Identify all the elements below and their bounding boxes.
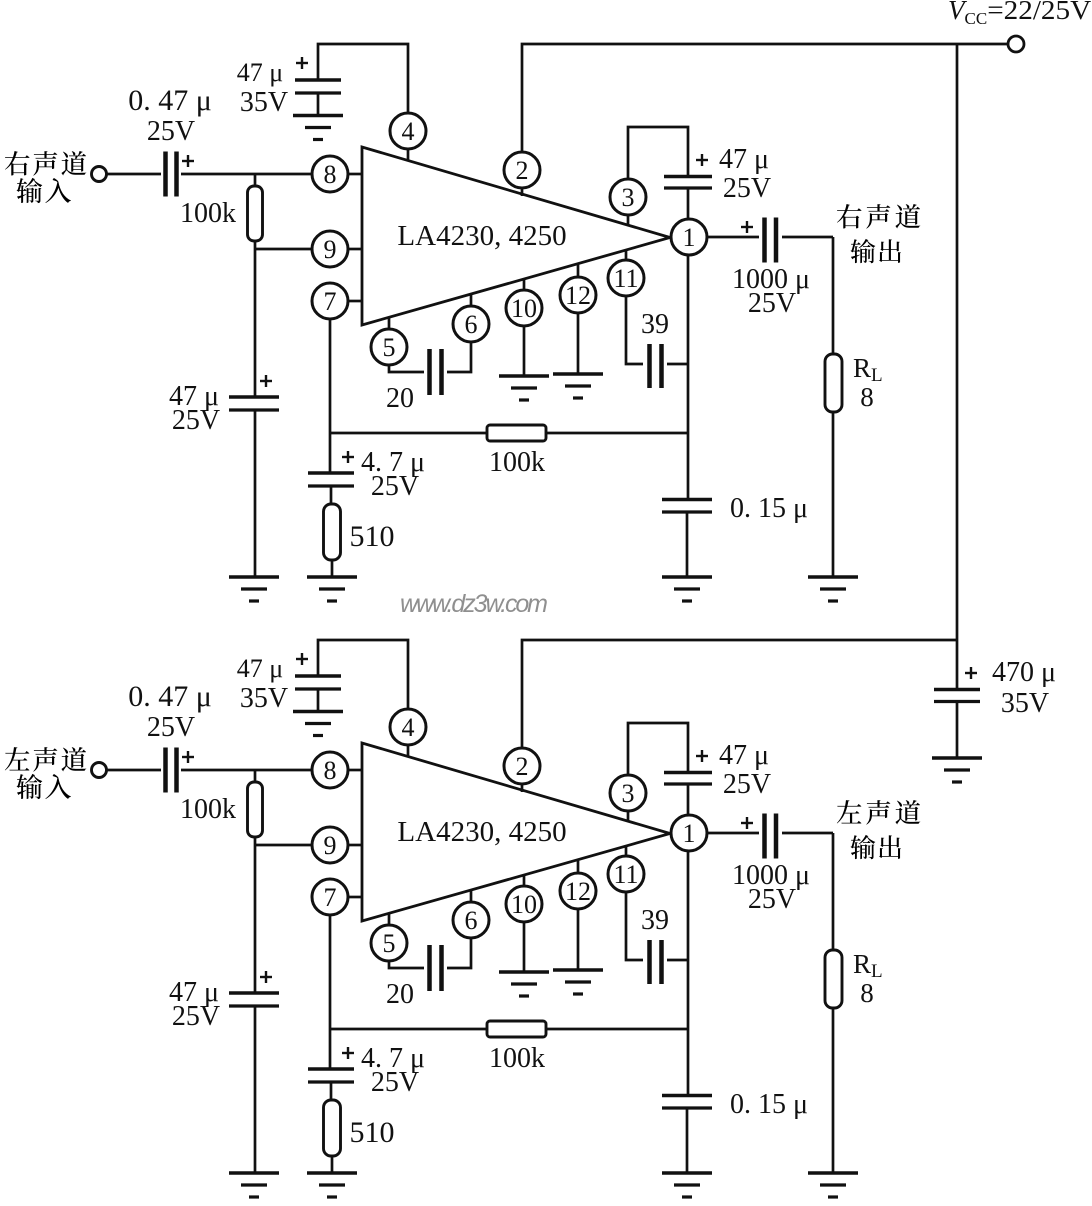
wire pin 1 to C 1000u: [707, 236, 759, 239]
pin 4 left: [390, 709, 426, 745]
wire pin 2 stub: [521, 784, 524, 792]
wire pin 6 stub: [470, 890, 473, 903]
svg-text:20: 20: [386, 383, 414, 414]
capacitor C 1000u 25V output left: [765, 814, 777, 859]
svg-text:6: 6: [465, 906, 478, 935]
wire C 4.7u to R 510: [330, 1082, 333, 1101]
wire pin 5 stub: [388, 913, 391, 926]
svg-text:8: 8: [324, 160, 337, 189]
capacitor C 4.7u 25V feedback left: [308, 1069, 354, 1082]
svg-text:12: 12: [565, 281, 591, 310]
svg-text:35V: 35V: [1001, 688, 1049, 719]
input terminal right channel: [92, 167, 107, 182]
ground below R 510: [307, 1173, 357, 1197]
capacitor C 4.7u 25V feedback right: [308, 473, 354, 486]
pin 11 right: [608, 260, 644, 296]
svg-text:7: 7: [324, 883, 337, 912]
svg-text:100k: 100k: [180, 198, 236, 229]
svg-text:10: 10: [511, 890, 537, 919]
wire pin 11 stub: [625, 250, 628, 261]
wire pin 2 to Vcc rail: [522, 44, 1008, 152]
capacitor C 47u 35V ripple filter right: [295, 80, 341, 93]
wire pin 12 to ground: [577, 313, 580, 375]
wire pin 1 down: [687, 851, 690, 1096]
wire output node down to RL: [832, 237, 835, 355]
wire RL to ground: [832, 412, 835, 578]
svg-text:1: 1: [683, 223, 696, 252]
wire RL to ground: [832, 1008, 835, 1174]
svg-text:LA4230, 4250: LA4230, 4250: [397, 220, 566, 252]
svg-text:25V: 25V: [172, 1001, 220, 1032]
resistor 100k feedback right: [487, 425, 546, 441]
svg-text:2: 2: [516, 752, 529, 781]
pin 12 ground left: [560, 873, 596, 909]
ground pin 10: [499, 972, 549, 996]
ground below C 0.15u: [662, 577, 712, 601]
wire C 39 to pin 1 line: [667, 959, 688, 962]
capacitor C 47u 35V ripple filter left: [295, 676, 341, 689]
svg-text:39: 39: [641, 309, 669, 340]
wire input to C 0.47u: [107, 769, 161, 772]
svg-text:12: 12: [565, 877, 591, 906]
capacitor C 470u 35V supply filter: [934, 690, 980, 702]
wire pin 7 down: [329, 319, 332, 473]
Vcc supply terminal: [1008, 36, 1024, 52]
svg-text:2: 2: [516, 156, 529, 185]
wire C 470u to ground: [956, 701, 959, 759]
svg-text:47 μ: 47 μ: [719, 144, 769, 175]
wire pin 10 stub: [523, 279, 526, 291]
wire pin 7 down: [329, 915, 332, 1069]
svg-text:25V: 25V: [371, 471, 419, 502]
wire pin 11 stub: [625, 846, 628, 857]
wire pin 3 to C 47u bootstrap: [628, 723, 688, 775]
wire C 0.15u to ground: [686, 1108, 689, 1174]
wire C 47u 35V to ground: [317, 93, 320, 116]
resistor 100k input bias left: [248, 782, 263, 837]
ground below C 470u: [932, 758, 982, 782]
capacitor C 1000u 25V output right: [765, 218, 777, 263]
svg-text:10: 10: [511, 294, 537, 323]
wire pin 3 to C 47u bootstrap: [628, 127, 688, 179]
capacitor C 47u 25V bootstrap left: [664, 773, 712, 785]
capacitor C 20 phase comp left: [430, 945, 442, 991]
svg-text:8: 8: [324, 756, 337, 785]
svg-text:470 μ: 470 μ: [992, 657, 1056, 688]
wire R 510 to ground: [331, 560, 334, 578]
svg-text:0. 15 μ: 0. 15 μ: [730, 1089, 808, 1120]
ground below R 510: [307, 577, 357, 601]
ground below C 47u 25V: [229, 577, 279, 601]
wire C 4.7u to R 510: [330, 486, 333, 505]
capacitor C 47u 25V bias decoupling right: [229, 397, 279, 410]
ground pin 10: [499, 376, 549, 400]
wire pin 3 stub: [627, 215, 630, 226]
capacitor C 0.15u zobel right: [662, 500, 712, 513]
ground below RL: [808, 1173, 858, 1197]
wire junction to R 100k top: [254, 770, 257, 783]
svg-text:25V: 25V: [748, 288, 796, 319]
op-amp U LA4230/4250 right channel triangle: [362, 147, 670, 325]
svg-text:11: 11: [613, 264, 638, 293]
wire output node down to RL: [832, 833, 835, 951]
wire pin 5 to C 20: [389, 365, 424, 372]
wire feedback net: [330, 1028, 688, 1031]
svg-text:20: 20: [386, 979, 414, 1010]
svg-text:510: 510: [350, 1116, 395, 1149]
pin 3 bootstrap left: [610, 775, 646, 811]
wire pin 4 to C 47u 35V: [318, 640, 408, 709]
pin 5 right: [371, 329, 407, 365]
svg-text:25V: 25V: [723, 173, 771, 204]
svg-text:3: 3: [622, 183, 635, 212]
wire pin 6 stub: [470, 294, 473, 307]
svg-text:0. 15 μ: 0. 15 μ: [730, 493, 808, 524]
wire C 1000u to output node: [782, 236, 833, 239]
pin 10 ground left: [506, 886, 542, 922]
wire C0.47u to pin 8: [181, 769, 312, 772]
wire pin 4 stub: [407, 745, 410, 757]
svg-text:35V: 35V: [240, 87, 288, 118]
resistor 510 feedback left: [324, 1100, 341, 1156]
wire Vcc rail vertical: [956, 44, 959, 690]
pin 7 feedback left: [312, 879, 348, 915]
wire pin 8 stub: [348, 173, 362, 176]
wire C 0.15u to ground: [686, 512, 689, 578]
ground below C 47u 35V: [293, 712, 343, 736]
ground pin 12: [553, 374, 603, 398]
wire pin 11 to C 39: [626, 296, 643, 364]
svg-text:510: 510: [350, 520, 395, 553]
ground below RL: [808, 577, 858, 601]
wire pin 9 stub: [348, 248, 362, 251]
node right-channel input label 右声道 输入: [5, 151, 86, 176]
svg-text:4: 4: [402, 713, 415, 742]
wire pin 5 stub: [388, 317, 391, 330]
svg-text:100k: 100k: [489, 1043, 545, 1074]
ground below C 47u 25V: [229, 1173, 279, 1197]
capacitor C 0.47u 25V input coupling right: [166, 152, 177, 197]
pin 1 output left: [671, 815, 707, 851]
ground below C 47u 35V: [293, 116, 343, 140]
wire C 47u to ground: [254, 1006, 257, 1174]
wire C 47u 35V to ground: [317, 689, 320, 712]
resistor RL 8ohm load right: [825, 354, 842, 412]
wire C 1000u to output node: [782, 832, 833, 835]
wire R100k bottom to C 47u: [254, 241, 257, 398]
pin 7 feedback right: [312, 283, 348, 319]
input terminal left channel: [92, 763, 107, 778]
svg-text:www.dz3w.com: www.dz3w.com: [400, 590, 548, 618]
wire C 47u to ground: [254, 410, 257, 578]
svg-text:25V: 25V: [172, 405, 220, 436]
pin 4 right: [390, 113, 426, 149]
pin 6 left: [453, 902, 489, 938]
capacitor C 47u 25V bias decoupling left: [229, 993, 279, 1006]
wire pin 10 to ground: [523, 922, 526, 973]
pin 8 input right: [312, 156, 348, 192]
wire pin 1 to C 1000u: [707, 832, 759, 835]
op-amp U LA4230/4250 left channel triangle: [362, 743, 670, 921]
pin 1 output right: [671, 219, 707, 255]
svg-text:9: 9: [324, 235, 337, 264]
wire junction to pin 9: [255, 248, 312, 251]
wire junction to R 100k top: [254, 174, 257, 187]
wire junction to pin 9: [255, 844, 312, 847]
svg-text:5: 5: [383, 333, 396, 362]
ground below C 0.15u: [662, 1173, 712, 1197]
capacitor C 39 right: [650, 344, 662, 388]
wire pin 7 stub: [348, 300, 362, 303]
svg-text:39: 39: [641, 905, 669, 936]
wire pin 3 stub: [627, 811, 630, 822]
capacitor C 20 phase comp right: [430, 349, 442, 395]
svg-text:25V: 25V: [147, 712, 195, 743]
wire pin 12 stub: [577, 860, 580, 874]
pin 3 bootstrap right: [610, 179, 646, 215]
pin 9 right: [312, 231, 348, 267]
svg-text:1: 1: [683, 819, 696, 848]
wire C 47u bootstrap to pin 1: [687, 784, 690, 816]
svg-text:8: 8: [860, 382, 874, 412]
svg-text:25V: 25V: [748, 884, 796, 915]
svg-text:8: 8: [860, 978, 874, 1008]
ground pin 12: [553, 970, 603, 994]
wire C 20 to pin 6: [447, 342, 471, 372]
wire input to C 0.47u: [107, 173, 161, 176]
wire C0.47u to pin 8: [181, 173, 312, 176]
pin 2 Vcc right: [504, 152, 540, 188]
pin 9 left: [312, 827, 348, 863]
capacitor C 0.15u zobel left: [662, 1096, 712, 1109]
pin 10 ground right: [506, 290, 542, 326]
svg-text:9: 9: [324, 831, 337, 860]
resistor 100k input bias right: [248, 186, 263, 241]
wire pin 11 to C 39: [626, 892, 643, 960]
svg-text:100k: 100k: [489, 447, 545, 478]
capacitor C 0.47u 25V input coupling left: [166, 748, 177, 793]
wire R 510 to ground: [331, 1156, 334, 1174]
wire pin 2 to Vcc rail: [522, 640, 957, 748]
resistor RL 8ohm load left: [825, 950, 842, 1008]
svg-text:25V: 25V: [371, 1067, 419, 1098]
wire pin 10 to ground: [523, 326, 526, 377]
pin 6 right: [453, 306, 489, 342]
svg-text:11: 11: [613, 860, 638, 889]
wire pin 7 stub: [348, 896, 362, 899]
wire pin 1 down: [687, 255, 690, 500]
svg-text:4: 4: [402, 117, 415, 146]
wire feedback net: [330, 432, 688, 435]
wire pin 12 to ground: [577, 909, 580, 971]
pin 12 ground right: [560, 277, 596, 313]
resistor 510 feedback right: [324, 504, 341, 560]
svg-text:35V: 35V: [240, 683, 288, 714]
wire C 39 to pin 1 line: [667, 363, 688, 366]
wire C 47u bootstrap to pin 1: [687, 188, 690, 220]
pin 8 input left: [312, 752, 348, 788]
svg-text:25V: 25V: [723, 769, 771, 800]
svg-text:100k: 100k: [180, 794, 236, 825]
svg-text:47 μ: 47 μ: [237, 58, 283, 87]
svg-text:0. 47 μ: 0. 47 μ: [128, 84, 212, 117]
wire pin 2 stub: [521, 188, 524, 196]
wire pin 10 stub: [523, 875, 526, 887]
wire pin 9 stub: [348, 844, 362, 847]
svg-text:LA4230, 4250: LA4230, 4250: [397, 816, 566, 848]
resistor 100k feedback left: [487, 1021, 546, 1037]
wire pin 5 to C 20: [389, 961, 424, 968]
pin 5 left: [371, 925, 407, 961]
wire C 20 to pin 6: [447, 938, 471, 968]
svg-text:25V: 25V: [147, 116, 195, 147]
svg-text:0. 47 μ: 0. 47 μ: [128, 680, 212, 713]
node left-channel output label 左声道 输出: [837, 800, 920, 825]
node left-channel input label 左声道 输入: [5, 747, 86, 772]
wire pin 4 to C 47u 35V: [318, 44, 408, 113]
wire pin 12 stub: [577, 264, 580, 278]
svg-text:6: 6: [465, 310, 478, 339]
svg-text:47 μ: 47 μ: [237, 654, 283, 683]
node right-channel output label 右声道 输出: [837, 204, 920, 229]
svg-text:7: 7: [324, 287, 337, 316]
svg-text:5: 5: [383, 929, 396, 958]
capacitor C 39 left: [650, 940, 662, 984]
wire R100k bottom to C 47u: [254, 837, 257, 994]
pin 2 Vcc left: [504, 748, 540, 784]
wire pin 4 stub: [407, 149, 410, 161]
pin 11 left: [608, 856, 644, 892]
svg-text:3: 3: [622, 779, 635, 808]
wire pin 8 stub: [348, 769, 362, 772]
svg-text:47 μ: 47 μ: [719, 740, 769, 771]
capacitor C 47u 25V bootstrap right: [664, 177, 712, 189]
